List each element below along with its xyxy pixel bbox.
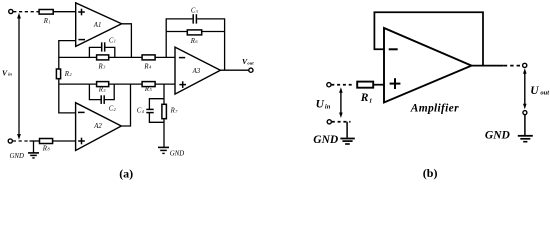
- svg-text:R: R: [360, 92, 369, 104]
- svg-text:1: 1: [49, 19, 51, 24]
- svg-text:U: U: [530, 85, 539, 97]
- svg-text:out: out: [247, 61, 254, 66]
- svg-text:4: 4: [149, 65, 151, 70]
- svg-text:3: 3: [103, 88, 105, 93]
- svg-text:in: in: [8, 72, 12, 77]
- svg-text:1: 1: [369, 97, 372, 104]
- svg-text:4: 4: [142, 109, 144, 114]
- svg-text:(a): (a): [119, 166, 133, 180]
- svg-text:out: out: [540, 90, 549, 97]
- svg-text:GND: GND: [170, 151, 184, 158]
- svg-text:5: 5: [150, 87, 152, 92]
- svg-text:in: in: [325, 103, 331, 110]
- svg-text:GND: GND: [313, 134, 339, 146]
- svg-text:GND: GND: [10, 153, 24, 160]
- svg-text:1: 1: [114, 39, 116, 44]
- svg-text:(b): (b): [423, 166, 438, 180]
- svg-text:A1: A1: [93, 22, 102, 29]
- svg-text:A3: A3: [192, 68, 201, 75]
- svg-text:Amplifier: Amplifier: [410, 102, 459, 114]
- svg-text:2: 2: [70, 72, 72, 77]
- svg-text:A2: A2: [93, 123, 102, 130]
- svg-text:U: U: [316, 99, 325, 111]
- svg-text:3: 3: [196, 9, 198, 14]
- svg-text:GND: GND: [485, 129, 511, 141]
- svg-text:2: 2: [114, 107, 116, 112]
- svg-text:3: 3: [103, 65, 105, 70]
